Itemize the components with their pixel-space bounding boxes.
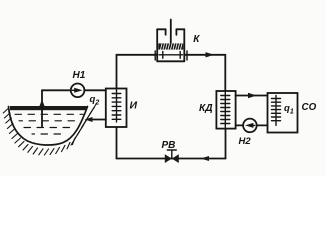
suction pipe — [41, 90, 43, 126]
heating system CO box — [268, 93, 298, 133]
water surface — [10, 106, 87, 110]
compressor piston (hatched) — [158, 43, 183, 49]
svg-text:КД: КД — [199, 103, 213, 114]
svg-text:q1: q1 — [284, 103, 294, 116]
compressor flange ticks — [154, 51, 156, 60]
wire: condenser to CO with right arrow — [236, 95, 268, 97]
wire: riser down to condenser — [224, 55, 226, 91]
wire: evaporator top riser — [116, 55, 118, 89]
water basin bowl — [9, 107, 88, 146]
wire: pipe to pump H1 — [42, 89, 71, 91]
svg-text:РВ: РВ — [162, 140, 176, 151]
condenser KD box — [216, 91, 235, 129]
arrow up in water — [39, 100, 44, 107]
ground hatching — [3, 104, 96, 156]
wire: pipe pump H1 to evaporator — [84, 89, 105, 91]
wire: evaporator bottom riser — [116, 127, 118, 159]
evaporator U box — [106, 89, 127, 128]
svg-text:К: К — [193, 34, 200, 45]
expansion valve PB — [165, 154, 172, 163]
svg-text:q2: q2 — [90, 94, 100, 107]
svg-text:СО: СО — [302, 102, 317, 113]
svg-text:И: И — [130, 99, 138, 111]
wire: compressor to condenser with right arrow — [184, 54, 225, 56]
return pipe to basin with left arrow — [89, 119, 106, 121]
svg-text:Н1: Н1 — [73, 70, 86, 81]
condenser coil — [221, 92, 230, 128]
water dashes — [15, 114, 83, 134]
wire: top-left pipe to compressor — [117, 54, 158, 56]
evaporator coil — [112, 90, 121, 123]
pump H2 — [243, 119, 257, 133]
wire: condenser bottom riser — [225, 129, 227, 159]
wire: bottom pipe with left arrow — [117, 158, 226, 160]
wire: CO to pump H2 — [256, 124, 267, 126]
CO coil — [272, 96, 281, 126]
svg-text:Н2: Н2 — [239, 136, 252, 147]
pump H1 — [71, 84, 85, 98]
compressor interior ports — [159, 54, 183, 56]
compressor K cylinder — [157, 29, 184, 61]
wire: pump H2 to condenser — [236, 124, 243, 126]
compressor piston rod — [170, 20, 172, 45]
